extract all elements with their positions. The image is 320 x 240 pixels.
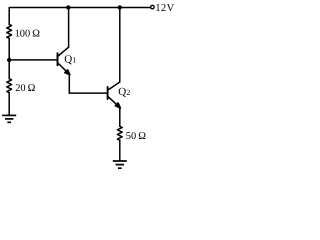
node dot at R1/R2 junction bbox=[7, 58, 11, 62]
svg-text:12V: 12V bbox=[155, 3, 174, 14]
transistor Q1 emitter arrowhead bbox=[65, 70, 70, 75]
ground right bbox=[113, 161, 127, 168]
transistor Q1 base bar bbox=[57, 53, 59, 65]
ground left bbox=[2, 115, 16, 122]
wire R3 to ground bbox=[119, 140, 121, 161]
resistor R2 20Ω zigzag bbox=[7, 79, 12, 93]
wire top rail bbox=[9, 8, 150, 25]
transistor Q2 emitter arrowhead bbox=[115, 103, 120, 108]
svg-text:50 Ω: 50 Ω bbox=[126, 131, 146, 142]
transistor Q2 emitter bbox=[108, 96, 120, 126]
wire left mid bbox=[8, 38, 10, 78]
svg-text:20 Ω: 20 Ω bbox=[15, 83, 35, 94]
node dot at Q2 collector on rail bbox=[118, 5, 122, 9]
transistor Q2 collector bbox=[108, 8, 120, 91]
node dot at Q1 collector on rail bbox=[66, 5, 70, 9]
svg-text:100 Ω: 100 Ω bbox=[15, 28, 41, 39]
terminal circle 12V bbox=[151, 5, 155, 9]
transistor Q2 base bar bbox=[107, 87, 109, 99]
transistor Q1 emitter bbox=[58, 63, 70, 94]
wire Q1 emitter to Q2 base bbox=[69, 92, 107, 94]
svg-text:Q2: Q2 bbox=[118, 86, 130, 98]
resistor R1 100Ω zigzag bbox=[7, 24, 12, 38]
transistor Q1 collector bbox=[58, 8, 69, 57]
resistor R3 50Ω zigzag bbox=[117, 126, 122, 140]
wire base Q1 bbox=[9, 59, 57, 61]
wire left lower bbox=[8, 93, 10, 116]
svg-text:Q1: Q1 bbox=[64, 54, 76, 66]
